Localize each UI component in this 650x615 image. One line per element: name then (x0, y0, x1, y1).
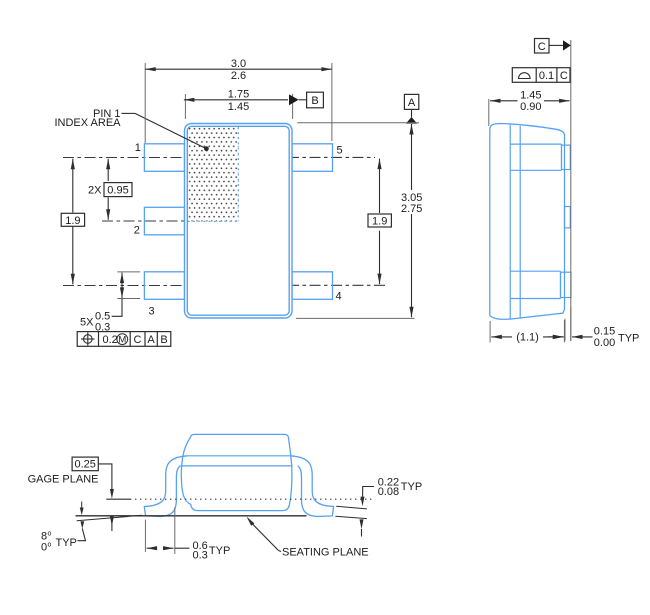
dimension 1.9 (right, pin5-pin4 span) (368, 159, 391, 285)
svg-text:o: o (48, 542, 52, 549)
svg-text:1.9: 1.9 (372, 216, 387, 228)
svg-text:0.08: 0.08 (378, 486, 399, 498)
datum C extension line (lead tip plane) (570, 40, 572, 341)
svg-text:0: 0 (41, 542, 47, 554)
svg-text:(1.1): (1.1) (516, 331, 539, 343)
svg-text:GAGE PLANE: GAGE PLANE (28, 473, 99, 485)
svg-text:0.00: 0.00 (594, 337, 615, 349)
feature control frame: position 0.2 M C A B (77, 332, 171, 347)
svg-text:C: C (134, 334, 142, 346)
side view lead 3 (bottom) (510, 271, 571, 298)
dimension 3.05/2.75 (body length) (296, 123, 422, 319)
datum B flag (289, 92, 323, 108)
dimension 0.22/0.08 TYP (lead thickness) (335, 476, 422, 536)
dimension 1.9 (left, pin1-pin3 span) (61, 159, 84, 285)
svg-text:B: B (311, 95, 318, 107)
package body outline (top view, double line) (185, 124, 293, 319)
body outline (profile view) (181, 434, 292, 510)
pin 3 (144, 272, 184, 300)
svg-text:0.90: 0.90 (520, 101, 541, 113)
wire: pin5 centerline (288, 156, 375, 158)
svg-text:3.0: 3.0 (231, 58, 246, 70)
datum C flag (535, 39, 571, 54)
parting line 1 (upper) (188, 455, 291, 457)
svg-text:TYP: TYP (56, 537, 77, 549)
svg-text:C: C (560, 70, 568, 82)
svg-text:SEATING PLANE: SEATING PLANE (282, 547, 369, 559)
left lead (gull wing) (144, 456, 187, 517)
svg-text:M: M (118, 335, 126, 346)
wire: pin2 centerline (102, 220, 188, 222)
datum A flag (404, 94, 418, 123)
profile tolerance frame 0.1 C (512, 68, 570, 83)
svg-text:1.75: 1.75 (228, 88, 249, 100)
svg-text:TYP: TYP (209, 545, 230, 557)
svg-text:5X: 5X (80, 316, 94, 328)
svg-text:0.25: 0.25 (74, 459, 95, 471)
dimension 0.15/0.00 TYP (lead tip to body) (548, 307, 639, 349)
dimension (1.1) body thickness (490, 320, 564, 343)
side view body outline (490, 124, 565, 320)
pin 5 (292, 144, 333, 172)
side view lead 1 (top) (510, 144, 570, 170)
wire: pin3 centerline (63, 285, 200, 287)
svg-text:2.6: 2.6 (231, 70, 246, 82)
angle dimension 8/0 deg TYP (41, 502, 86, 554)
SEATING PLANE label and leader (247, 517, 369, 559)
dimension 0.6/0.3 TYP (foot length) (145, 507, 230, 561)
pin 1 (144, 144, 184, 172)
dimension 3.0/2.6 (overall width) (145, 58, 332, 143)
wire: pin4 centerline (288, 284, 386, 286)
dimension 2X 0.95 (pin pitch) (88, 159, 132, 220)
side view lead 2 (middle tab) (565, 207, 571, 228)
svg-text:A: A (408, 97, 416, 109)
svg-text:0.2: 0.2 (103, 334, 118, 346)
pin 1 index area (stipple) (188, 127, 239, 222)
pin 4 (292, 272, 333, 300)
svg-text:1.45: 1.45 (228, 101, 249, 113)
right lead (gull wing) (290, 456, 333, 517)
svg-text:0.3: 0.3 (193, 549, 208, 561)
pin 2 (144, 207, 184, 235)
svg-text:INDEX AREA: INDEX AREA (54, 117, 121, 129)
dimension 0.25 GAGE PLANE (28, 457, 114, 531)
dimension 5X 0.5/0.3 (pin width) (80, 272, 140, 333)
foot angle line (0-8 deg) (77, 515, 142, 521)
svg-text:2: 2 (134, 225, 140, 237)
dimension 1.45/0.90 (side height) (489, 89, 570, 126)
parting line 2 (lower) (180, 465, 291, 467)
side view mold parting lines (510, 125, 520, 319)
svg-text:2.75: 2.75 (401, 203, 422, 215)
svg-text:3: 3 (149, 306, 155, 318)
wire: pin1 centerline (63, 157, 193, 159)
svg-text:TYP: TYP (401, 481, 422, 493)
dimension 1.75/1.45 (body width) with datum B (184, 88, 293, 119)
gage plane dotted line (106, 498, 372, 500)
svg-text:A: A (147, 334, 155, 346)
svg-text:2X: 2X (88, 184, 102, 196)
svg-text:0.95: 0.95 (107, 184, 128, 196)
svg-text:1: 1 (135, 142, 141, 154)
svg-text:C: C (538, 41, 546, 53)
PIN 1 INDEX AREA label and leader (54, 108, 208, 151)
svg-text:0.1: 0.1 (539, 70, 554, 82)
svg-text:o: o (48, 531, 52, 538)
seating plane line (76, 515, 307, 517)
svg-text:0.15: 0.15 (594, 325, 615, 337)
svg-text:1.9: 1.9 (65, 215, 80, 227)
svg-text:1.45: 1.45 (520, 89, 541, 101)
svg-text:TYP: TYP (618, 332, 639, 344)
svg-text:4: 4 (336, 291, 342, 303)
svg-text:5: 5 (337, 145, 343, 157)
svg-text:B: B (160, 334, 167, 346)
